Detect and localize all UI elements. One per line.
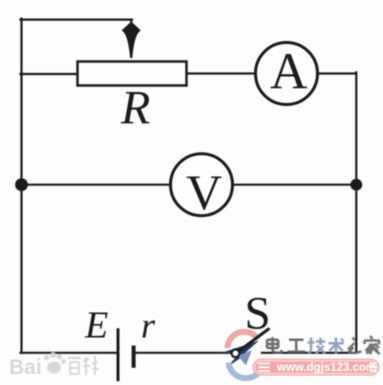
watermark logo navy bolt <box>223 341 260 368</box>
node junction dot left <box>15 178 28 191</box>
voltmeter V <box>171 154 233 216</box>
rheostat R body <box>78 62 187 86</box>
svg-text:Bai: Bai <box>9 356 42 379</box>
wire left vertical <box>20 19 22 353</box>
svg-text:E: E <box>84 305 108 347</box>
wire rheostat right to ammeter <box>187 72 256 74</box>
wiper arrowhead of rheostat <box>122 22 141 59</box>
wire voltmeter right <box>233 184 356 186</box>
wire switch to bottom right corner <box>262 352 356 354</box>
battery short plate <box>132 346 136 368</box>
svg-text:r: r <box>141 306 156 346</box>
watermark red url band <box>253 359 380 376</box>
wire rheostat left branch <box>21 73 78 75</box>
watermark baike glyphs <box>68 356 99 375</box>
switch S pivot contact <box>232 349 240 357</box>
switch S blade <box>239 328 270 351</box>
watermark logo red arc <box>228 332 259 348</box>
svg-text:A: A <box>270 43 308 100</box>
ammeter A <box>256 43 318 105</box>
watermark logo blue arc <box>229 363 262 379</box>
wire right vertical <box>355 72 357 352</box>
battery long plate (E) <box>117 328 120 381</box>
wire wiper lead <box>130 20 132 33</box>
watermark baidu paw + Bai text bottom left <box>9 352 66 379</box>
wire battery to switch <box>135 352 231 354</box>
wire bottom left to battery <box>21 352 117 354</box>
node junction dot right <box>350 179 362 191</box>
wire ammeter right <box>318 72 356 74</box>
svg-text:R: R <box>120 82 150 135</box>
wire voltmeter left <box>22 184 171 186</box>
watermark site name glyphs 电工技术之家 <box>267 336 380 354</box>
svg-text:www.dgjs123.com: www.dgjs123.com <box>276 362 376 374</box>
wire top horizontal <box>21 19 133 21</box>
watermark logo light triangle <box>238 351 252 366</box>
svg-text:V: V <box>186 164 222 220</box>
